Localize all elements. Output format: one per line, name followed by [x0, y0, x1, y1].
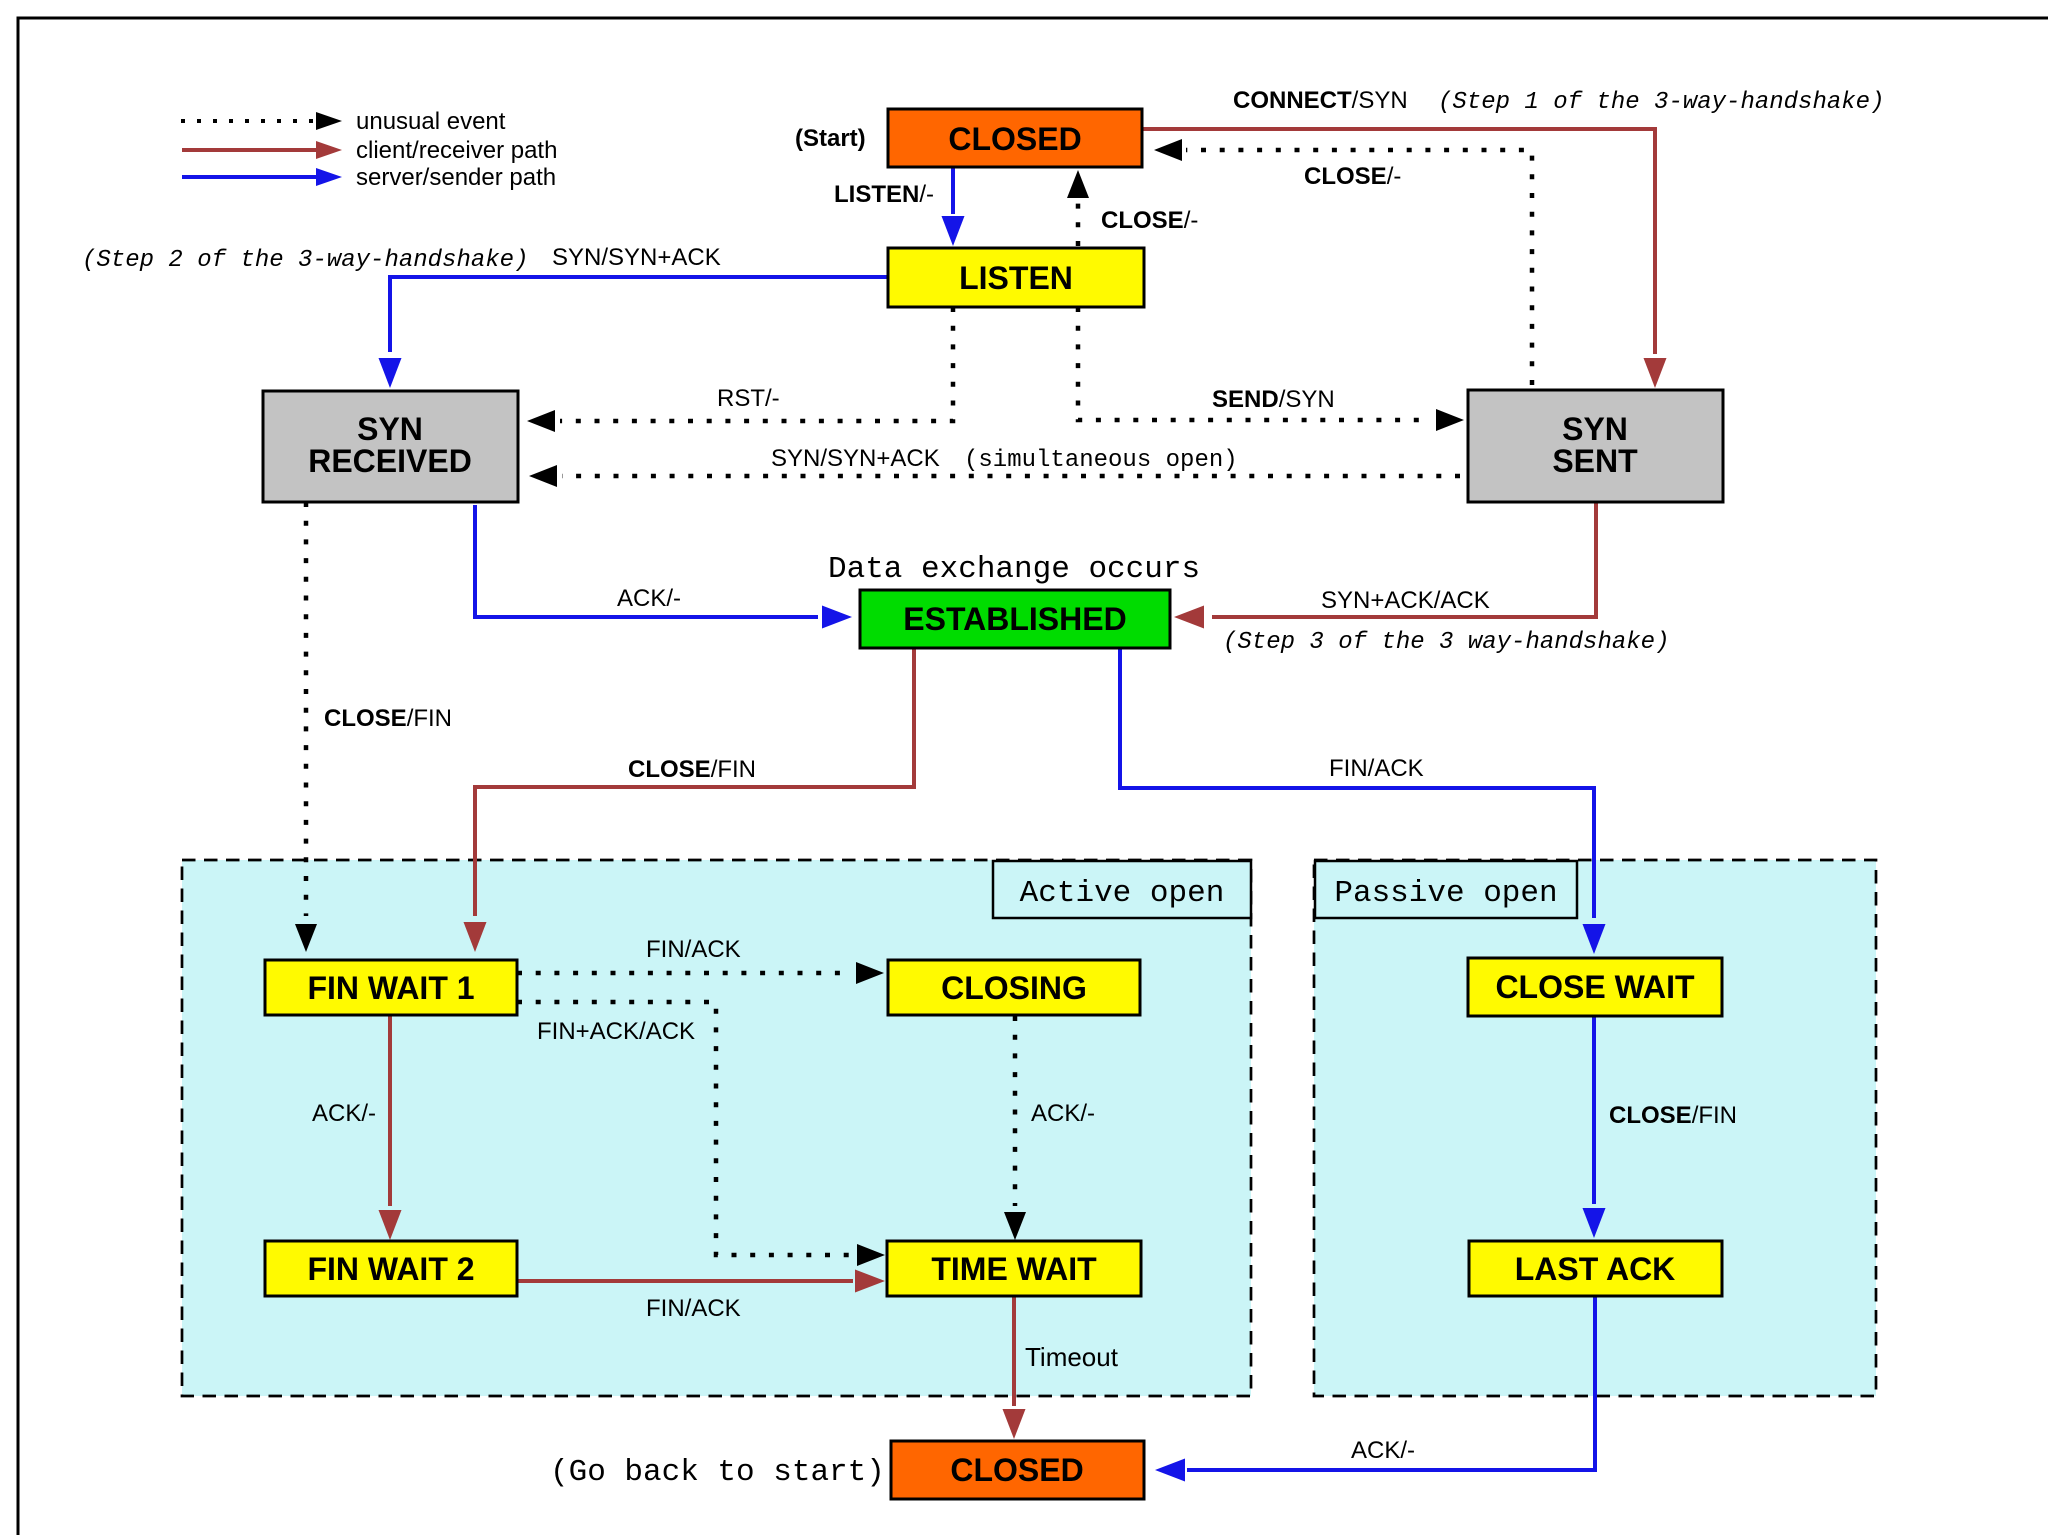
- svg-text:(Start): (Start): [795, 125, 866, 152]
- svg-text:CLOSE/-: CLOSE/-: [1304, 163, 1401, 190]
- svg-text:LISTEN: LISTEN: [959, 260, 1073, 296]
- svg-text:CLOSED: CLOSED: [948, 121, 1081, 157]
- svg-text:CLOSING: CLOSING: [941, 970, 1087, 1006]
- svg-text:SEND/SYN: SEND/SYN: [1212, 386, 1335, 413]
- svg-text:Active open: Active open: [1020, 876, 1225, 911]
- svg-text:FIN/ACK: FIN/ACK: [1329, 755, 1424, 782]
- svg-text:RECEIVED: RECEIVED: [308, 443, 472, 479]
- svg-text:(Step 1 of the 3-way-handshake: (Step 1 of the 3-way-handshake): [1438, 89, 1884, 116]
- svg-text:ESTABLISHED: ESTABLISHED: [903, 601, 1126, 637]
- svg-text:CLOSE/-: CLOSE/-: [1101, 207, 1198, 234]
- svg-text:LAST ACK: LAST ACK: [1515, 1251, 1676, 1287]
- svg-text:FIN WAIT 1: FIN WAIT 1: [307, 970, 474, 1006]
- svg-text:ACK/-: ACK/-: [617, 585, 681, 612]
- svg-text:CLOSE/FIN: CLOSE/FIN: [628, 756, 756, 783]
- svg-text:FIN/ACK: FIN/ACK: [646, 1295, 741, 1322]
- svg-text:(simultaneous open): (simultaneous open): [964, 447, 1238, 474]
- svg-text:CLOSE WAIT: CLOSE WAIT: [1495, 969, 1695, 1005]
- svg-text:SYN: SYN: [1562, 411, 1628, 447]
- svg-text:CLOSE/FIN: CLOSE/FIN: [324, 705, 452, 732]
- svg-text:TIME WAIT: TIME WAIT: [931, 1251, 1097, 1287]
- svg-text:CLOSE/FIN: CLOSE/FIN: [1609, 1102, 1737, 1129]
- svg-text:(Go back to start): (Go back to start): [550, 1455, 885, 1490]
- svg-text:ACK/-: ACK/-: [1031, 1100, 1095, 1127]
- svg-text:CONNECT/SYN: CONNECT/SYN: [1233, 87, 1408, 114]
- svg-text:SYN/SYN+ACK: SYN/SYN+ACK: [552, 244, 721, 271]
- svg-text:Timeout: Timeout: [1025, 1342, 1119, 1372]
- svg-text:FIN WAIT 2: FIN WAIT 2: [307, 1251, 474, 1287]
- svg-text:FIN+ACK/ACK: FIN+ACK/ACK: [537, 1018, 695, 1045]
- svg-text:RST/-: RST/-: [717, 385, 780, 412]
- svg-text:(Step 2 of the 3-way-handshake: (Step 2 of the 3-way-handshake): [82, 247, 528, 274]
- svg-text:unusual event: unusual event: [356, 108, 506, 135]
- svg-text:server/sender path: server/sender path: [356, 164, 556, 191]
- svg-text:Data exchange occurs: Data exchange occurs: [828, 552, 1200, 587]
- svg-text:SYN+ACK/ACK: SYN+ACK/ACK: [1321, 587, 1490, 614]
- svg-text:FIN/ACK: FIN/ACK: [646, 936, 741, 963]
- svg-text:CLOSED: CLOSED: [950, 1452, 1083, 1488]
- svg-text:Passive open: Passive open: [1334, 876, 1557, 911]
- svg-text:SENT: SENT: [1552, 443, 1638, 479]
- svg-text:SYN: SYN: [357, 411, 423, 447]
- svg-text:ACK/-: ACK/-: [1351, 1437, 1415, 1464]
- svg-text:ACK/-: ACK/-: [312, 1100, 376, 1127]
- svg-text:LISTEN/-: LISTEN/-: [834, 181, 934, 208]
- svg-text:(Step 3 of the 3 way-handshake: (Step 3 of the 3 way-handshake): [1223, 629, 1669, 656]
- svg-text:SYN/SYN+ACK: SYN/SYN+ACK: [771, 445, 940, 472]
- svg-text:client/receiver path: client/receiver path: [356, 137, 557, 164]
